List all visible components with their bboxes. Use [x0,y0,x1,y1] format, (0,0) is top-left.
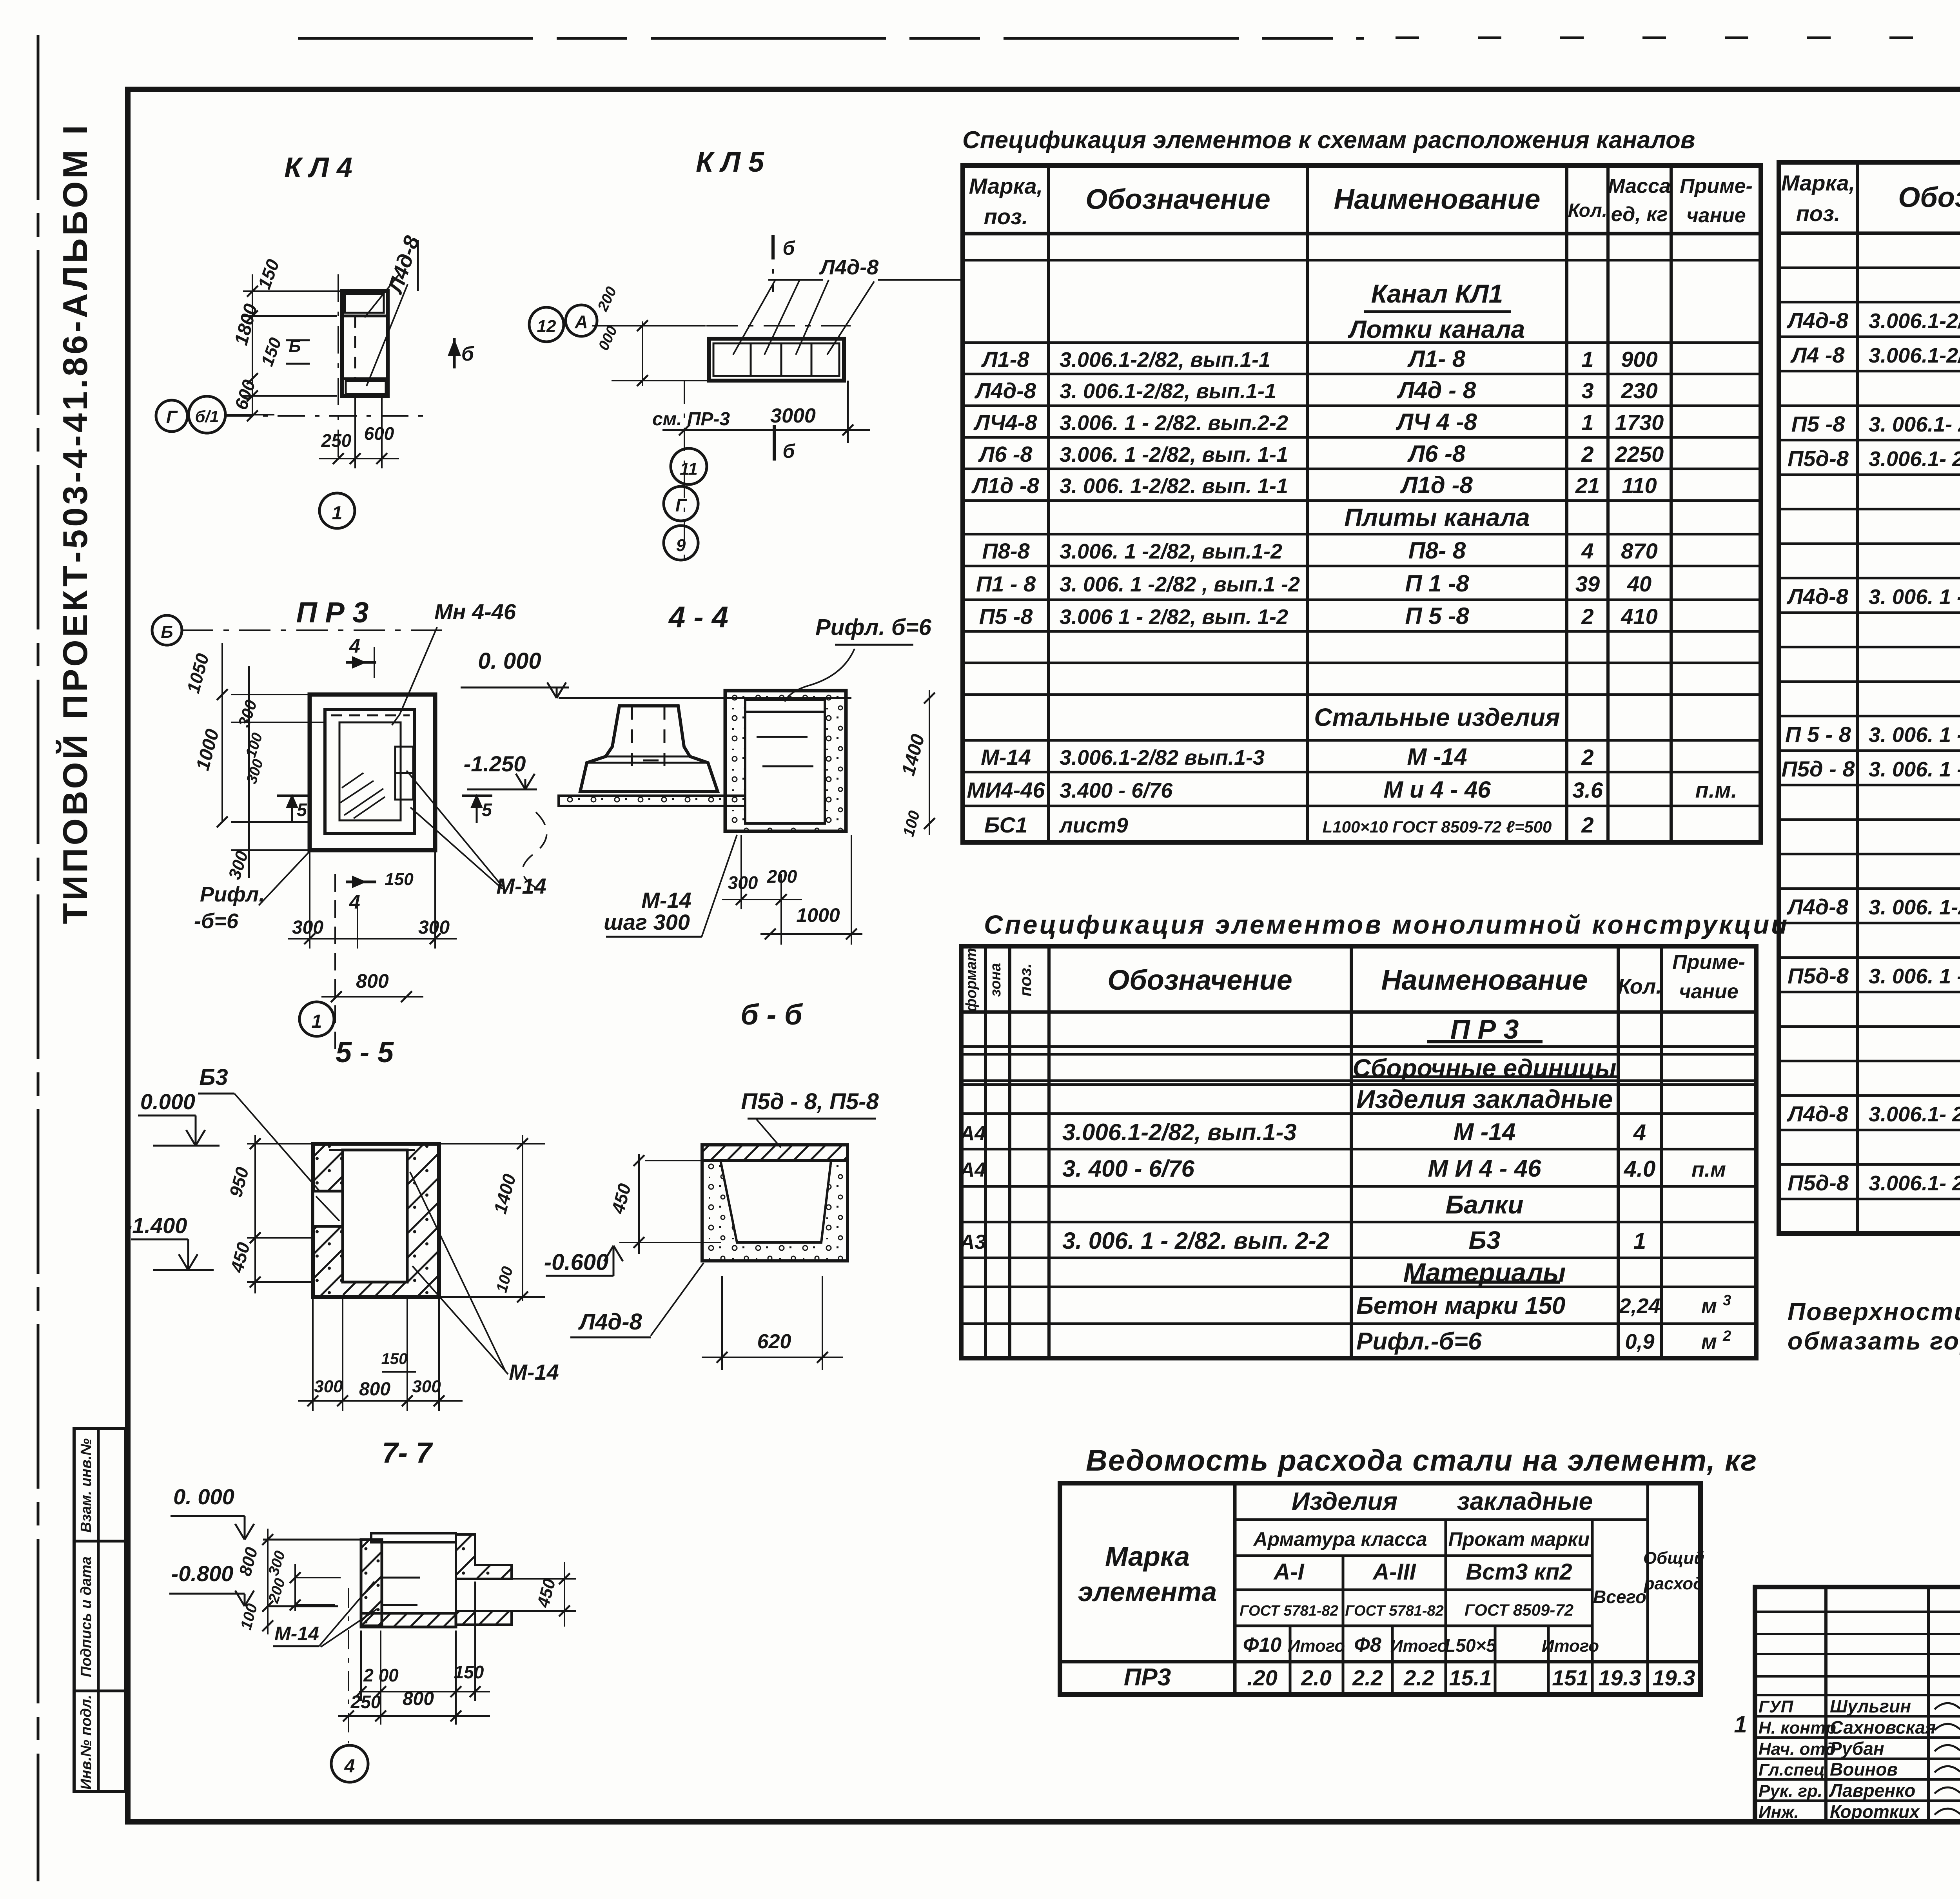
svg-text:L100×10 ГОСТ 8509-72 ℓ=500: L100×10 ГОСТ 8509-72 ℓ=500 [1323,818,1552,836]
svg-text:800: 800 [356,970,389,992]
svg-text:М-14: М-14 [509,1360,559,1384]
svg-text:-0.600: -0.600 [544,1250,608,1275]
svg-text:3.006.1-2/32, вып.1-1: 3.006.1-2/32, вып.1-1 [1869,344,1960,367]
left stamp strip boxes [74,1429,126,1792]
svg-text:ГОСТ 5781-82: ГОСТ 5781-82 [1240,1603,1338,1619]
PR3 section mark 4 bottom [346,881,376,883]
KL4 channel element plan [342,291,388,396]
svg-text:Б: Б [161,622,173,642]
svg-text:2250: 2250 [1615,442,1664,466]
svg-text:Всего: Всего [1593,1587,1646,1607]
svg-text:3. 006. 1-2/82, вып. 1-1: 3. 006. 1-2/82, вып. 1-1 [1869,896,1960,919]
7-7 left dims [267,1529,269,1634]
svg-text:4: 4 [1633,1120,1646,1145]
svg-text:м: м [1701,1294,1717,1318]
svg-text:Канал КЛ1: Канал КЛ1 [1371,279,1503,308]
svg-text:Ф8: Ф8 [1354,1634,1381,1656]
svg-text:Л4д-8: Л4д-8 [819,256,879,279]
svg-text:ГОСТ 8509-72: ГОСТ 8509-72 [1465,1601,1573,1619]
PR3 axis B circle [152,615,182,645]
svg-text:Л4д-8: Л4д-8 [1786,1101,1849,1126]
4-4 foundation funnel [580,706,718,792]
svg-text:900: 900 [1621,347,1657,372]
monolith table grid [961,946,1756,1358]
svg-text:А4: А4 [959,1159,986,1181]
PR3 left dim chain [221,643,223,823]
right spec table grid [1779,162,1960,1233]
svg-text:3.006. 1 - 2/82. вып.2-2: 3.006. 1 - 2/82. вып.2-2 [1060,411,1288,435]
4-4 wall section right [725,691,846,831]
5-5 pit section [313,1144,343,1297]
svg-text:К Л 5: К Л 5 [696,147,764,178]
svg-text:3.006.1-2/82, вып.1-3: 3.006.1-2/82, вып.1-3 [1062,1119,1297,1145]
svg-text:Спецификация элементов к схема: Спецификация элементов к схемам располож… [962,127,1695,154]
svg-text:Итого: Итого [1542,1636,1599,1656]
svg-text:элемента: элемента [1078,1576,1217,1607]
svg-text:110: 110 [1622,473,1657,498]
svg-text:150: 150 [385,870,414,889]
svg-text:1: 1 [332,503,343,524]
svg-text:зона: зона [987,963,1004,997]
svg-text:ед, кг: ед, кг [1611,203,1668,226]
svg-text:-1.400: -1.400 [125,1213,187,1238]
svg-text:3.006.1- 2/82: вып 1-1: 3.006.1- 2/82: вып 1-1 [1869,1103,1960,1126]
main title block [1755,1587,1960,1822]
KL4 left dim chain [252,274,253,417]
svg-text:Рифл.-б=6: Рифл.-б=6 [1356,1328,1482,1355]
svg-text:МИ4-46: МИ4-46 [967,778,1045,802]
KL5 plan element [709,339,844,381]
svg-text:б: б [461,343,475,365]
sheet edge dash line left [37,35,40,1881]
svg-text:ТИПОВОЙ ПРОЕКТ-503-4-41.86-АЛ: ТИПОВОЙ ПРОЕКТ-503-4-41.86-АЛЬБОМ I [56,122,94,924]
svg-text:Подпись и дата: Подпись и дата [78,1556,94,1677]
svg-text:2: 2 [1722,1328,1731,1344]
svg-text:Л1-8: Л1-8 [981,347,1029,372]
svg-text:3. 006. 1 - 2/82. вып.1-2: 3. 006. 1 - 2/82. вып.1-2 [1869,723,1960,747]
svg-text:3.006. 1 -2/82, вып. 1-1: 3.006. 1 -2/82, вып. 1-1 [1060,443,1288,466]
svg-text:Стальные изделия: Стальные изделия [1314,703,1560,731]
svg-text:Вст3 кп2: Вст3 кп2 [1466,1559,1572,1585]
svg-text:3.006.1- 2/82, вып.1-2: 3.006.1- 2/82, вып.1-2 [1869,1172,1960,1195]
svg-text:П5д - 8: П5д - 8 [1782,756,1855,781]
svg-text:П Р 3: П Р 3 [296,596,369,629]
svg-text:б: б [783,440,796,462]
svg-text:БС1: БС1 [984,813,1028,837]
svg-text:4: 4 [1581,539,1593,563]
KL5 axis line [592,325,851,326]
svg-text:1: 1 [1633,1228,1646,1254]
svg-text:П 1 -8: П 1 -8 [1405,570,1469,597]
svg-text:3. 006. 1 - 2/82. вып. 1-2: 3. 006. 1 - 2/82. вып. 1-2 [1869,965,1960,988]
top fold cut line [298,37,1364,40]
svg-text:б: б [783,237,796,259]
KL5 section mark bottom [773,425,776,461]
PR3 section mark 4 top [346,661,376,664]
svg-text:П5д-8: П5д-8 [1788,1170,1849,1195]
svg-text:ГОСТ 5781-82: ГОСТ 5781-82 [1345,1603,1444,1619]
svg-text:40: 40 [1627,571,1651,596]
7-7 inner cavity [382,1542,456,1613]
svg-text:Взам. инв.№: Взам. инв.№ [78,1438,94,1533]
svg-text:4: 4 [344,1756,355,1777]
PR3 inner wall plan [325,709,414,833]
svg-text:А3: А3 [959,1231,986,1253]
svg-text:М-14: М-14 [496,874,546,898]
svg-text:12: 12 [537,317,556,336]
svg-text:Л4д-8: Л4д-8 [1786,308,1849,333]
svg-text:2,24: 2,24 [1619,1294,1660,1318]
svg-text:Л4д-8: Л4д-8 [1786,584,1849,609]
svg-text:39: 39 [1575,571,1600,596]
svg-text:Итого: Итого [1390,1636,1448,1656]
svg-text:п.м: п.м [1691,1158,1726,1181]
svg-text:Обозначение: Обозначение [1107,965,1292,996]
svg-text:3.400 - 6/76: 3.400 - 6/76 [1060,779,1173,802]
svg-text:поз.: поз. [984,204,1028,229]
6-6 channel section [702,1161,848,1261]
KL5 axis circles column [684,381,685,564]
svg-text:Поверхности каналов, соприкас: Поверхности каналов, соприкасающиеся с г… [1788,1298,1960,1326]
svg-text:Г: Г [166,407,178,427]
svg-text:3. 006. 1 - 2/82. вып. 1-2: 3. 006. 1 - 2/82. вып. 1-2 [1869,758,1960,781]
svg-text:Л1д -8: Л1д -8 [1400,472,1473,498]
svg-text:Лавренко: Лавренко [1829,1780,1915,1801]
svg-text:формат: формат [963,948,980,1012]
5-5 top plate dashed [329,1149,415,1151]
svg-text:4.0: 4.0 [1624,1156,1656,1182]
KL5 bottom dim 3000 [662,429,870,431]
svg-text:3. 400 - 6/76: 3. 400 - 6/76 [1062,1155,1195,1182]
PR3 dim 5 marks [277,794,308,797]
svg-text:4: 4 [349,891,360,913]
svg-text:Балки: Балки [1445,1190,1523,1219]
svg-text:М и 4 - 46: М и 4 - 46 [1383,776,1491,803]
svg-text:К Л 4: К Л 4 [284,152,352,183]
svg-text:3: 3 [1581,378,1593,403]
svg-text:5 - 5: 5 - 5 [336,1036,394,1068]
7-7 right channel lower band [456,1611,512,1625]
svg-text:620: 620 [757,1330,791,1353]
svg-text:Спецификация элементов моно: Спецификация элементов монолитной констр… [984,910,1789,940]
svg-text:Л4д-8: Л4д-8 [578,1309,642,1335]
svg-text:870: 870 [1621,539,1657,563]
svg-text:Прокат марки: Прокат марки [1448,1528,1590,1550]
svg-text:3.006.1- 2/82. вып. 1-2: 3.006.1- 2/82. вып. 1-2 [1869,447,1960,471]
svg-text:3. 006. 1 -2/82 , вып.1 -2: 3. 006. 1 -2/82 , вып.1 -2 [1060,573,1300,596]
4-4 ground line [559,697,851,699]
PR3 outer wall plan [310,695,435,850]
svg-text:19.3: 19.3 [1599,1665,1641,1690]
svg-text:б/1: б/1 [195,407,219,426]
svg-text:600: 600 [364,423,394,444]
svg-text:П Р 3: П Р 3 [1450,1014,1519,1045]
svg-text:L50×5: L50×5 [1445,1635,1497,1656]
7-7 pit walls [361,1540,382,1626]
KL4 axis circles [156,400,187,432]
svg-text:300: 300 [728,872,758,893]
svg-text:Марка,: Марка, [969,174,1043,198]
svg-text:Наименование: Наименование [1334,184,1541,215]
6-6 dim 620 [721,1276,723,1370]
svg-text:Л4 -8: Л4 -8 [1790,343,1845,367]
svg-text:Инж.: Инж. [1759,1803,1799,1822]
svg-text:Наименование: Наименование [1381,965,1588,996]
svg-text:Кол.: Кол. [1618,975,1662,998]
svg-text:1000: 1000 [796,904,840,926]
4-4 dim 1400 right [929,690,930,835]
svg-text:Рубан: Рубан [1830,1738,1884,1759]
svg-text:-1.250: -1.250 [464,751,526,776]
svg-text:Б3: Б3 [1469,1226,1501,1254]
svg-text:3: 3 [1723,1292,1731,1309]
KL4 bottom dim [319,458,399,459]
svg-text:Л4д - 8: Л4д - 8 [1397,377,1476,403]
svg-text:М -14: М -14 [1454,1119,1515,1146]
svg-text:П5 -8: П5 -8 [979,604,1033,629]
svg-text:250: 250 [321,430,352,451]
svg-text:9: 9 [676,536,686,555]
svg-text:150: 150 [381,1350,408,1368]
svg-text:2: 2 [1581,813,1593,837]
4-4 right dims [722,899,802,900]
svg-text:Г: Г [675,495,687,515]
svg-text:Бетон марки 150: Бетон марки 150 [1356,1292,1565,1319]
svg-text:П5д-8: П5д-8 [1788,963,1849,988]
svg-text:м: м [1701,1330,1717,1353]
svg-text:300: 300 [412,1377,441,1396]
svg-text:2: 2 [1581,442,1593,466]
svg-text:Изделия закладные: Изделия закладные [1356,1085,1613,1114]
svg-text:1: 1 [312,1011,322,1032]
5-5 bottom dims [298,1400,463,1402]
KL5 axis circles 12 A [529,307,564,342]
svg-text:М -14: М -14 [1407,744,1467,770]
svg-text:3. 006. 1-2/82. вып. 1-1: 3. 006. 1-2/82. вып. 1-1 [1060,474,1288,498]
svg-text:М-14: М-14 [981,745,1031,769]
svg-text:3.006.1-2/82 вып.1-3: 3.006.1-2/82 вып.1-3 [1060,746,1265,769]
svg-text:ЛЧ4-8: ЛЧ4-8 [973,410,1037,435]
svg-text:0,9: 0,9 [1625,1330,1654,1353]
svg-text:3. 006.1- 2/82, вып.1-2: 3. 006.1- 2/82, вып.1-2 [1869,413,1960,436]
KL4 section mark b [453,338,456,368]
svg-text:Арматура класса: Арматура класса [1253,1528,1427,1550]
svg-text:3. 006. 1 - 2/82. вып. 2-2: 3. 006. 1 - 2/82. вып. 2-2 [1062,1228,1329,1254]
svg-text:чание: чание [1679,980,1738,1003]
svg-text:Приме-: Приме- [1680,175,1753,198]
svg-text:19.3: 19.3 [1653,1665,1695,1690]
svg-text:П 5 - 8: П 5 - 8 [1785,722,1851,747]
svg-text:А-I: А-I [1273,1559,1305,1585]
svg-text:2.2: 2.2 [1352,1665,1383,1690]
4-4 break line to M-14 [523,812,547,892]
svg-text:П5 -8: П5 -8 [1791,412,1846,436]
svg-text:800: 800 [359,1379,390,1400]
svg-text:Обозначение: Обозначение [1898,182,1960,213]
svg-text:поз.: поз. [1016,963,1034,996]
svg-text:Л6 -8: Л6 -8 [978,442,1033,466]
svg-text:150: 150 [454,1662,484,1682]
svg-text:ГУП: ГУП [1759,1697,1794,1716]
KL5 section marks top [772,235,774,292]
svg-text:лист9: лист9 [1058,814,1128,837]
7-7 right wall step [456,1534,512,1579]
svg-text:П8- 8: П8- 8 [1408,537,1466,564]
svg-text:поз.: поз. [1796,201,1840,226]
steel table grid [1060,1483,1700,1694]
svg-text:Итого: Итого [1288,1636,1345,1656]
svg-text:Инв.№ подл.: Инв.№ подл. [78,1695,94,1790]
4-4 base slab [559,796,794,806]
svg-text:А: А [574,312,588,332]
svg-text:Лотки канала: Лотки канала [1348,315,1525,343]
svg-text:3. 006.1-2/82, вып.1-1: 3. 006.1-2/82, вып.1-1 [1060,379,1276,403]
PR3 embedded dashed line top wall [331,715,410,716]
svg-text:А-III: А-III [1372,1559,1416,1585]
svg-text:Рук. гр.: Рук. гр. [1759,1781,1822,1801]
svg-text:М-14: М-14 [274,1623,319,1645]
svg-text:1: 1 [1734,1711,1747,1738]
svg-text:-0.800: -0.800 [171,1561,234,1586]
svg-text:1730: 1730 [1615,410,1664,435]
svg-text:5: 5 [297,800,307,820]
svg-text:Б3: Б3 [199,1065,228,1090]
svg-text:.20: .20 [1247,1665,1278,1690]
svg-text:шаг 300: шаг 300 [604,910,690,934]
7-7 ground line top [263,1539,361,1541]
svg-text:3.006.1-2/82, вып.1-1: 3.006.1-2/82, вып.1-1 [1060,348,1270,372]
svg-text:П 5 -8: П 5 -8 [1405,603,1469,629]
svg-text:Марка: Марка [1105,1541,1190,1572]
svg-text:Коротких: Коротких [1830,1801,1920,1822]
svg-text:Мн 4-46: Мн 4-46 [434,599,516,624]
6-6 dim 450 [638,1154,640,1254]
svg-text:5: 5 [482,800,492,820]
svg-text:15.1: 15.1 [1449,1665,1492,1690]
PR3 niche detail [395,747,413,800]
svg-text:П5д - 8, П5-8: П5д - 8, П5-8 [741,1089,879,1114]
svg-text:0. 000: 0. 000 [173,1484,234,1509]
svg-text:3.6: 3.6 [1572,778,1603,802]
svg-text:Воинов: Воинов [1830,1759,1898,1779]
7-7 right dim 450 [564,1562,565,1627]
svg-text:300: 300 [418,917,450,938]
PR3 axis circle 1 [299,1002,334,1036]
svg-text:2: 2 [1581,745,1593,769]
svg-text:1: 1 [1581,410,1593,435]
svg-text:Приме-: Приме- [1672,951,1745,974]
svg-text:Рифл. б=6: Рифл. б=6 [815,615,932,640]
svg-text:3. 006. 1 - 2/82. вып.1-1: 3. 006. 1 - 2/82. вып.1-1 [1869,585,1960,609]
svg-text:закладные: закладные [1457,1487,1593,1515]
PR3 rubble hatch corner [340,773,385,818]
svg-text:300: 300 [314,1377,343,1396]
svg-text:7- 7: 7- 7 [382,1436,433,1469]
svg-text:Обозначение: Обозначение [1085,184,1270,215]
svg-text:см. ПР-3: см. ПР-3 [652,409,730,430]
5-5 beam B3 block [313,1191,343,1226]
svg-text:Л6 -8: Л6 -8 [1407,441,1466,467]
svg-text:410: 410 [1621,604,1657,629]
svg-text:Шульгин: Шульгин [1830,1696,1911,1716]
svg-text:11: 11 [680,459,698,479]
svg-text:Ф10: Ф10 [1243,1634,1282,1656]
svg-text:151: 151 [1552,1665,1588,1690]
KL4 axis circle 1 [319,493,355,528]
7-7 bottom dims [359,1691,490,1692]
svg-text:4 - 4: 4 - 4 [668,600,728,634]
svg-text:Изделия: Изделия [1292,1487,1397,1515]
svg-text:П1 - 8: П1 - 8 [976,571,1036,596]
svg-text:Н. контр: Н. контр [1759,1718,1836,1738]
svg-text:А4: А4 [959,1122,986,1145]
left spec table grid [963,165,1761,842]
5-5 right dims [522,1135,523,1301]
svg-text:250: 250 [350,1692,381,1712]
KL4 centerlines [338,274,339,459]
svg-text:Гл.спец: Гл.спец [1759,1760,1825,1779]
svg-text:300: 300 [292,917,323,938]
svg-text:Плиты канала: Плиты канала [1344,503,1530,531]
svg-text:М И 4 - 46: М И 4 - 46 [1428,1155,1541,1182]
svg-text:б - б: б - б [740,998,803,1031]
svg-text:-б=6: -б=6 [194,909,239,933]
svg-text:Рифл.: Рифл. [200,883,265,906]
svg-text:чание: чание [1686,204,1746,227]
svg-text:0.000: 0.000 [140,1089,195,1114]
svg-text:21: 21 [1575,473,1600,498]
svg-text:обмазать горячим битумом за: обмазать горячим битумом за 2 раза [1788,1328,1960,1355]
svg-text:3.006.1-2/82. вып.1-1: 3.006.1-2/82. вып.1-1 [1869,309,1960,333]
svg-text:3.006. 1 -2/82, вып.1-2: 3.006. 1 -2/82, вып.1-2 [1060,540,1282,563]
svg-text:ПР3: ПР3 [1124,1664,1171,1691]
svg-text:Ведомость расхода стали на эле: Ведомость расхода стали на элемент, кг [1086,1444,1757,1477]
svg-text:2.2: 2.2 [1403,1665,1434,1690]
5-5 left dims [254,1135,256,1293]
svg-text:Л1д -8: Л1д -8 [971,473,1039,498]
svg-text:Общий: Общий [1643,1549,1704,1568]
svg-text:Сахновская: Сахновская [1830,1717,1936,1738]
svg-text:Марка,: Марка, [1781,170,1855,195]
svg-text:П8-8: П8-8 [982,539,1030,563]
svg-text:Нач. отд: Нач. отд [1759,1739,1836,1759]
svg-text:П5д-8: П5д-8 [1788,446,1849,471]
svg-text:230: 230 [1621,378,1657,403]
svg-text:ЛЧ 4 -8: ЛЧ 4 -8 [1396,409,1477,435]
svg-text:3.006 1 - 2/82, вып. 1-2: 3.006 1 - 2/82, вып. 1-2 [1060,605,1288,629]
svg-text:расход: расход [1644,1574,1704,1593]
PR3 bottom dims [288,938,457,940]
svg-text:Л1- 8: Л1- 8 [1407,346,1466,372]
svg-text:3000: 3000 [770,404,816,427]
svg-text:Масса: Масса [1608,175,1671,198]
svg-text:800: 800 [403,1689,434,1709]
svg-text:Кол.: Кол. [1568,200,1607,221]
svg-text:Л4д-8: Л4д-8 [974,378,1036,403]
svg-text:М-14: М-14 [641,888,691,912]
7-7 axis circle 4 [348,1588,349,1743]
7-7 top plate [371,1533,456,1542]
svg-text:0. 000: 0. 000 [478,648,541,674]
svg-text:Л4д-8: Л4д-8 [1786,894,1849,919]
svg-text:п.м.: п.м. [1695,778,1737,802]
svg-text:2.0: 2.0 [1301,1665,1332,1690]
4-4 wall top plate [745,700,825,712]
svg-text:2: 2 [1581,604,1593,629]
svg-text:1: 1 [1581,347,1593,372]
svg-text:4: 4 [349,635,360,657]
